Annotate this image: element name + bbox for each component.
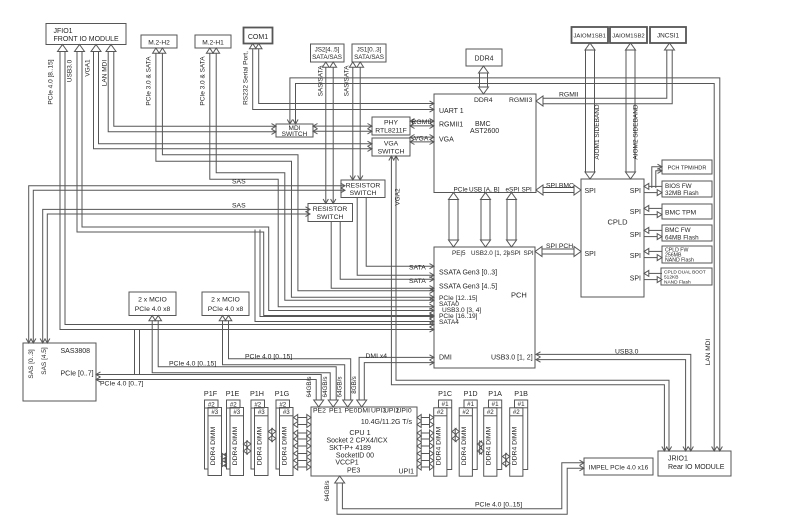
svg-text:10.4G/11.2G T/s: 10.4G/11.2G T/s [361,419,413,426]
svg-text:SPI: SPI [524,250,534,257]
svg-text:PE|5: PE|5 [452,250,466,257]
wire M.2-H1 PCIe/SATA to PCH [210,53,434,307]
svg-text:#2: #2 [462,409,469,416]
svg-text:UPI0: UPI0 [397,408,412,415]
wire VGA2 VGA switch to JRIO1 [391,156,664,451]
svg-text:VCCP1: VCCP1 [335,460,358,467]
wire resistor switch 2 to PCH SSATA Gen3 [4..5] [331,222,434,289]
memory DDR4 (BMC) [466,49,502,66]
svg-text:PCIe 4.0 [0..15]: PCIe 4.0 [0..15] [169,361,216,368]
svg-text:RS232 Serial Port,: RS232 Serial Port, [243,51,250,105]
wire MCIO2 to CPU PE0 [223,320,345,401]
svg-text:USB3.0: USB3.0 [615,349,639,356]
svg-text:USB2.0 [1, 2]: USB2.0 [1, 2] [471,250,509,257]
wire SAS3808 PCIe [0..7] to CPU PE2 [96,380,316,402]
wire resistor switch 1 to PCH SSATA Gen3 [0..3] [357,198,434,276]
wire AIOM2 sideband JAIOM1SB2 to CPLD [625,49,627,173]
wire PE3 CPU to IMPEL PCIe 4.0 x16 [337,468,584,514]
VGA SWITCH [372,138,410,156]
DIMM channel P1H [251,400,265,469]
svg-text:RESISTOR: RESISTOR [346,183,381,190]
connector JNCSI1 [650,27,686,43]
MDI SWITCH [276,124,313,137]
svg-text:DDR4 DIMM: DDR4 DIMM [257,426,264,465]
wire MDI switch to PHY RTL8211F [313,130,372,132]
wire M.2-H2 PCIe/SATA to PCH [156,53,434,298]
MCIO connector 1 [129,292,176,316]
wire CPLD SPI to CPLD FW flash [649,250,662,252]
svg-text:JNCSI1: JNCSI1 [657,33,679,40]
svg-text:SocketID 00: SocketID 00 [336,453,374,460]
svg-text:64MB Flash: 64MB Flash [665,235,699,242]
svg-text:SPI PCH: SPI PCH [546,243,573,250]
svg-text:SATA: SATA [409,265,426,272]
svg-text:RGMII3: RGMII3 [509,97,533,104]
DIMM channel P1C [439,400,452,470]
wire BMC PCIe to PCH PE|5 [448,199,450,242]
DIMM channel P1E [227,400,241,469]
DIMM channel P1D [464,400,477,470]
svg-text:PCH TPM/HDR: PCH TPM/HDR [668,166,707,172]
svg-text:PE1: PE1 [329,408,342,415]
CPU1 socket [311,407,417,476]
svg-text:AIOM1 SIDEBAND: AIOM1 SIDEBAND [594,104,601,160]
svg-text:VGA: VGA [414,136,429,143]
svg-text:BMC TPM: BMC TPM [665,210,697,217]
svg-text:SPI: SPI [585,188,596,195]
svg-text:RGMII: RGMII [559,92,579,99]
wire RS232 serial COM1 to BMC UART1 [253,48,434,110]
wires DIMM P1A to P1B [505,456,508,458]
svg-text:#2: #2 [230,401,237,408]
svg-text:P1G: P1G [275,389,290,398]
svg-text:USB3.0: USB3.0 [67,59,74,82]
wire BMC eSPI to PCH eSPI [506,199,508,242]
wire JS2 to resistor switch 2 [325,67,327,204]
CPLD FW 256MB NAND flash [662,246,712,263]
svg-text:RESISTOR: RESISTOR [313,206,348,213]
connector JAIOM1SB2 [610,27,647,43]
svg-text:32MB Flash: 32MB Flash [665,190,699,197]
svg-text:PCIe 4.0 [8..15]: PCIe 4.0 [8..15] [48,59,55,104]
wires DIMM P1H to P1E [246,443,249,445]
wire CPLD SPI to BIOS FW flash [649,185,662,187]
svg-text:64GB/s: 64GB/s [337,377,344,398]
svg-text:P1D: P1D [464,389,478,398]
PHY RTL8211F [372,117,410,135]
svg-text:FRONT IO MODULE: FRONT IO MODULE [54,36,120,43]
svg-text:COM1: COM1 [248,34,268,41]
svg-text:PCIe: PCIe [454,187,469,194]
wire CPLD SPI to BMC FW flash [649,229,662,231]
svg-text:SWITCH: SWITCH [378,149,405,156]
svg-text:DDR4: DDR4 [474,56,493,63]
svg-text:PE3: PE3 [347,468,360,475]
svg-text:M.2-H2: M.2-H2 [148,39,170,46]
svg-text:LAN MDI: LAN MDI [705,339,712,366]
wire CPLD SPI branch to PCH TPM header [656,171,662,188]
svg-text:#2: #2 [208,401,215,408]
svg-text:DMI: DMI [439,355,452,362]
svg-text:#2: #2 [513,409,520,416]
svg-text:#3: #3 [233,409,240,416]
svg-text:SAS/SATA: SAS/SATA [318,65,325,96]
svg-text:DDR4 DIMM: DDR4 DIMM [435,426,442,465]
resistor switch 1 [341,180,385,198]
svg-text:SATA4: SATA4 [439,319,459,326]
svg-text:P1A: P1A [488,389,502,398]
svg-text:RGMII: RGMII [412,119,432,126]
svg-text:VGA: VGA [384,141,399,148]
svg-text:#2: #2 [254,401,261,408]
svg-text:AST2600: AST2600 [470,128,499,135]
svg-text:BIOS FW: BIOS FW [665,183,692,190]
wire SPI PCH to CPLD [541,253,575,255]
svg-text:JRIO1: JRIO1 [668,456,688,463]
wire USB3.0 front IO to PCH USB3.0 [3,4] [77,51,434,316]
svg-text:DDR4: DDR4 [474,97,493,104]
svg-text:P1C: P1C [438,389,452,398]
wire BMC USB to PCH USB2.0 [480,199,482,242]
wire SAS resistor switch 2 to SAS3808 [43,209,310,343]
svg-text:DDR4 DIMM: DDR4 DIMM [511,426,518,465]
svg-text:64GB/s: 64GB/s [324,481,331,502]
svg-text:SSATA Gen3 [4..5]: SSATA Gen3 [4..5] [439,284,497,291]
svg-text:#1: #1 [492,401,499,408]
svg-text:USB3.0 [1, 2]: USB3.0 [1, 2] [491,355,533,362]
svg-text:P1B: P1B [514,389,528,398]
wire DMI x4 PCH to CPU [359,357,434,401]
svg-text:P1E: P1E [226,389,240,398]
wire SPI BMC to CPLD [542,192,575,194]
BMC AST2600 [434,94,536,193]
svg-text:VGA2: VGA2 [395,188,402,206]
resistor switch 2 [308,204,353,222]
wire RGMII BMC to JNCSI1 [542,49,672,104]
svg-text:RTL8211F: RTL8211F [375,128,407,135]
svg-text:UPI1: UPI1 [399,469,415,476]
connector M.2-H1 [195,35,231,48]
PCH [434,247,535,368]
wire front IO PCIe branch down to PE2 run (T at x137) [134,330,136,375]
wire LAN MDI front IO to MDI switch [108,51,276,132]
wire CPLD SPI to CPLD dual boot flash [649,272,662,274]
connector JS2[4..5] SATA/SAS [311,44,345,62]
svg-text:SATA: SATA [409,278,426,285]
svg-text:DMI: DMI [358,408,371,415]
svg-text:#1: #1 [442,401,449,408]
PCH TPM/HDR header [662,160,712,174]
wire RGMII PHY to BMC RGMII1 [410,125,434,127]
svg-text:PCIe 4.0 x8: PCIe 4.0 x8 [135,306,171,313]
wire AIOM1 sideband JAIOM1SB1 to CPLD [585,49,587,173]
svg-text:PHY: PHY [384,120,398,127]
wire CPLD SPI to BMC TPM [649,207,662,209]
IMPEL PCIe 4.0 x16 redriver [584,458,653,475]
svg-text:NAND Flash: NAND Flash [664,280,691,286]
connector COM1 [244,28,273,44]
svg-text:IMPEL PCIe 4.0 x16: IMPEL PCIe 4.0 x16 [589,465,649,472]
connector JRIO1 Rear IO Module [658,451,731,476]
DIMM channel P1A [489,400,502,470]
svg-text:#2: #2 [487,409,494,416]
svg-text:VGA: VGA [439,137,454,144]
svg-text:SAS [0..3]: SAS [0..3] [28,349,35,378]
svg-text:PCIe 3.0 & SATA: PCIe 3.0 & SATA [200,56,207,106]
svg-text:LAN MDI: LAN MDI [102,60,109,87]
svg-text:#3: #3 [283,409,290,416]
svg-text:SPI: SPI [630,232,641,239]
connector JAIOM1SB1 [572,27,609,43]
svg-text:DDR4 DIMM: DDR4 DIMM [282,426,289,465]
wire PCIe 4.0 [8..15] front IO to CPU PE2 run [60,51,434,330]
svg-text:JS1[0..3]: JS1[0..3] [357,47,382,54]
svg-text:SPI: SPI [630,253,641,260]
svg-text:SAS: SAS [232,203,246,210]
svg-text:P1H: P1H [250,389,264,398]
wires DIMM P1D to P1A [479,443,482,445]
svg-text:SAS: SAS [232,179,246,186]
svg-text:SATA/SAS: SATA/SAS [354,54,384,61]
svg-text:BMC FW: BMC FW [665,227,691,234]
svg-text:PCIe [0..7]: PCIe [0..7] [61,371,94,378]
wire USB3.0 PCH to JRIO1 [536,360,686,451]
svg-text:eSPI: eSPI [506,187,520,194]
svg-text:SATA/SAS: SATA/SAS [312,54,342,61]
wire MCIO1 to CPU PE1 [152,320,330,401]
svg-text:DDR4 DIMM: DDR4 DIMM [485,426,492,465]
svg-text:JAIOM1SB2: JAIOM1SB2 [612,34,644,40]
wire JS1 to resistor switch 1 [352,67,354,181]
svg-text:JFIO1: JFIO1 [54,28,73,35]
svg-text:PE0: PE0 [345,408,358,415]
svg-text:SPI BMC: SPI BMC [546,183,574,190]
svg-text:DDR4 DIMM: DDR4 DIMM [461,426,468,465]
connector JFIO1 Front IO Module [46,24,126,45]
svg-text:#3: #3 [211,409,218,416]
svg-text:SSATA Gen3 [0..3]: SSATA Gen3 [0..3] [439,270,497,277]
svg-text:64GB/s: 64GB/s [306,377,313,398]
BMC TPM [662,204,712,219]
wires CPU to DIMM P1G memory bus [297,417,308,419]
svg-text:NAND Flash: NAND Flash [665,258,694,264]
svg-text:#3: #3 [258,409,265,416]
svg-text:SAS3808: SAS3808 [61,348,91,355]
DIMM channel P1F [205,400,219,469]
svg-text:DDR4 DIMM: DDR4 DIMM [232,426,239,465]
svg-text:SAS/SATA: SAS/SATA [344,65,351,96]
svg-text:2 x MCIO: 2 x MCIO [138,297,167,304]
svg-text:Socket 2 CPX4/ICX: Socket 2 CPX4/ICX [326,438,387,445]
svg-text:eSPI: eSPI [507,250,521,257]
svg-text:SWITCH: SWITCH [317,214,344,221]
svg-text:SPI: SPI [522,187,533,194]
wires DIMM P1E to P1F [223,456,225,458]
svg-text:PCIe 4.0 [0..15]: PCIe 4.0 [0..15] [245,354,292,361]
BIOS FW 32MB flash [662,181,712,197]
svg-text:SPI: SPI [630,276,641,283]
svg-text:PCIe 4.0 x8: PCIe 4.0 x8 [208,306,244,313]
svg-text:Rear IO MODULE: Rear IO MODULE [668,464,725,471]
svg-text:SPI: SPI [585,251,596,258]
wire VGA switch to BMC VGA [410,141,434,143]
svg-text:DDR4 DIMM: DDR4 DIMM [210,426,217,465]
DIMM channel P1G [276,400,290,469]
svg-text:UART 1: UART 1 [439,108,464,115]
svg-text:SAS [4.5]: SAS [4.5] [41,347,48,375]
svg-text:CPU 1: CPU 1 [349,428,370,437]
DIMM channel P1B [515,400,528,470]
svg-text:DMI x4: DMI x4 [366,353,388,360]
svg-text:#1: #1 [518,401,525,408]
svg-text:64GB/s: 64GB/s [322,377,329,398]
svg-text:P1F: P1F [204,389,218,398]
svg-text:AIOM2 SIDEBAND: AIOM2 SIDEBAND [633,104,640,160]
svg-text:PCH: PCH [511,291,527,300]
svg-text:PE2: PE2 [313,408,326,415]
wire LAN MDI MDI switch to JRIO1 rear [296,84,715,452]
svg-text:CPLD: CPLD [607,218,628,227]
svg-text:SPI: SPI [630,209,641,216]
svg-text:VGA1: VGA1 [85,59,92,77]
wire USB3.0 branch to PCH second port [255,230,434,322]
svg-text:SWITCH: SWITCH [350,190,377,197]
svg-text:RGMII1: RGMII1 [439,122,463,129]
svg-text:BMC: BMC [475,121,491,128]
wire VGA1 front IO to VGA switch [94,51,373,149]
svg-text:8GB/s: 8GB/s [351,376,358,394]
CPLD [581,179,644,297]
MCIO connector 2 [202,292,249,316]
connector JS1[0..3] SATA/SAS [352,44,386,62]
svg-text:PCIe 4.0 [0..15]: PCIe 4.0 [0..15] [475,502,522,509]
SAS3808 controller [23,343,96,401]
wires CPU to DIMM P1C memory bus [421,417,431,419]
wire SAS resistor switch 1 to SAS3808 [29,186,345,343]
wires DIMM P1C to P1D [454,431,457,433]
wires DIMM P1G to P1H [271,431,274,433]
CPLD dual boot 512KB NAND flash [661,268,712,285]
svg-text:M.2-H1: M.2-H1 [202,39,224,46]
svg-text:#2: #2 [437,409,444,416]
svg-text:SKT-P+ 4189: SKT-P+ 4189 [329,445,371,452]
svg-text:PCIe 4.0 [0..7]: PCIe 4.0 [0..7] [100,381,144,388]
svg-text:SPI: SPI [630,188,641,195]
svg-text:JAIOM1SB1: JAIOM1SB1 [573,34,605,40]
svg-text:PCIe 3.0 & SATA: PCIe 3.0 & SATA [146,56,153,106]
svg-text:#2: #2 [279,401,286,408]
svg-text:2 x MCIO: 2 x MCIO [211,297,240,304]
svg-text:SWITCH: SWITCH [282,131,308,138]
svg-text:USB [A, B]: USB [A, B] [469,187,500,194]
BMC FW 64MB flash [662,225,712,241]
connector M.2-H2 [141,35,177,48]
svg-text:JS2[4..5]: JS2[4..5] [315,47,340,54]
wire DDR4 to BMC [479,72,481,88]
svg-text:#1: #1 [467,401,474,408]
